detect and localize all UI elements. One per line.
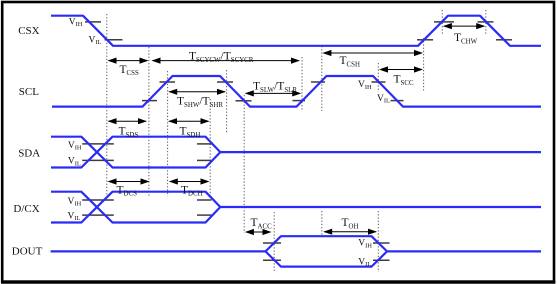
svg-text:VIL: VIL: [358, 258, 371, 269]
svg-text:VIL: VIL: [89, 35, 102, 46]
svg-text:TDCH: TDCH: [181, 184, 203, 197]
svg-text:TCSH: TCSH: [340, 55, 360, 68]
svg-text:SCL: SCL: [19, 86, 39, 98]
svg-text:TSCC: TSCC: [394, 73, 414, 86]
svg-text:VIH: VIH: [68, 141, 82, 152]
svg-text:TSLW/TSLR: TSLW/TSLR: [253, 81, 297, 94]
svg-text:VIH: VIH: [68, 197, 82, 208]
svg-text:TSDH: TSDH: [180, 126, 201, 139]
svg-text:VIH: VIH: [358, 239, 372, 250]
svg-text:VIL: VIL: [68, 157, 81, 168]
svg-text:TDCS: TDCS: [117, 184, 138, 197]
svg-text:CSX: CSX: [18, 25, 39, 37]
svg-text:TACC: TACC: [251, 217, 273, 230]
svg-text:TSHW/TSHR: TSHW/TSHR: [177, 96, 223, 109]
svg-text:DOUT: DOUT: [12, 246, 43, 258]
svg-text:VIL: VIL: [377, 94, 390, 105]
svg-text:VIL: VIL: [68, 211, 81, 222]
svg-text:VIH: VIH: [358, 80, 372, 91]
svg-text:D/CX: D/CX: [13, 203, 39, 215]
svg-text:TCHW: TCHW: [454, 32, 478, 45]
svg-text:TCSS: TCSS: [120, 64, 139, 77]
svg-text:SDA: SDA: [18, 148, 40, 160]
svg-text:VIH: VIH: [69, 17, 83, 28]
svg-text:TSCYCW/TSCYCR: TSCYCW/TSCYCR: [189, 51, 254, 64]
svg-text:TOH: TOH: [342, 217, 359, 230]
svg-text:TSDS: TSDS: [119, 126, 139, 139]
